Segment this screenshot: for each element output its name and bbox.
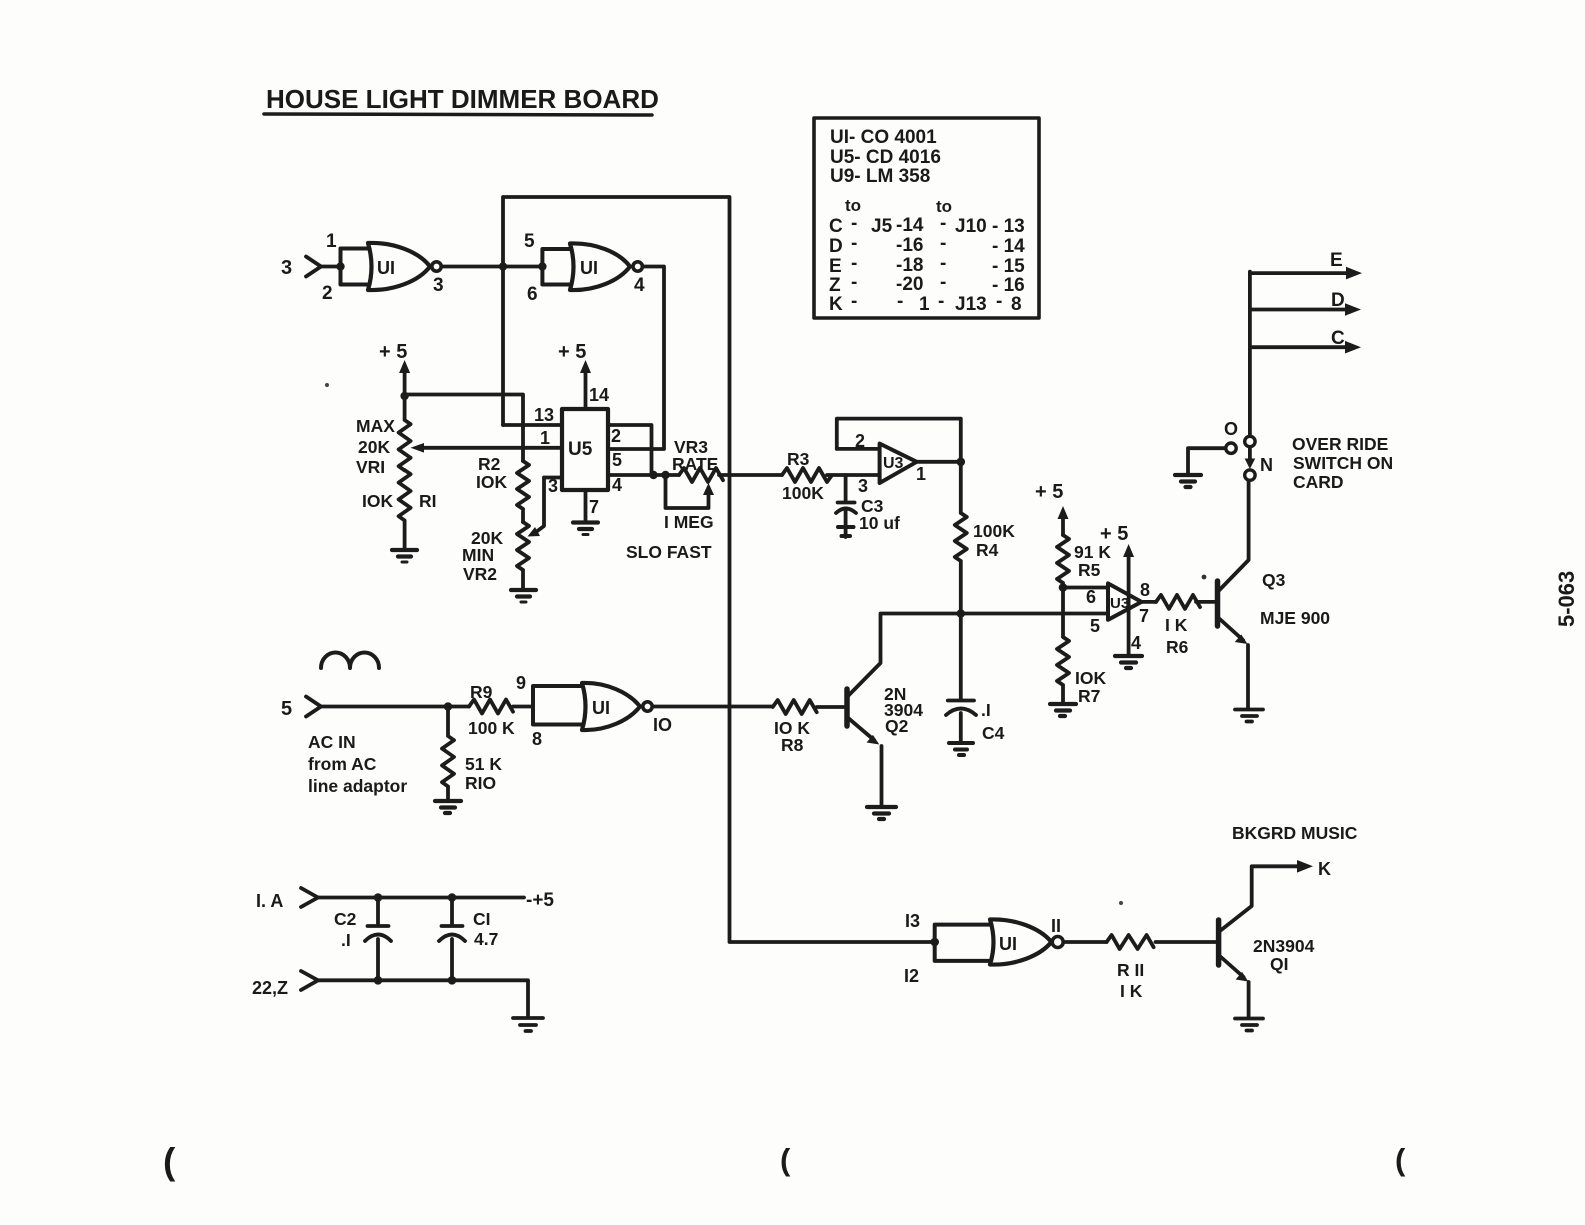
svg-text:5: 5 (1090, 616, 1100, 636)
svg-text:IO: IO (653, 715, 672, 735)
label R2 10K (476, 454, 507, 492)
potentiometer VR3 1MEG (679, 468, 782, 482)
svg-text:II: II (1051, 916, 1061, 936)
node gate U1a input junction (336, 262, 344, 270)
wire O contact to ground (1188, 448, 1226, 474)
switch contact O (left) (1226, 443, 1236, 453)
resistor R7 10K (1057, 588, 1069, 704)
capacitor C3 10uf (836, 475, 856, 537)
pin 12 label (U1d) (904, 966, 919, 986)
svg-text:6: 6 (527, 284, 538, 305)
svg-text:J5: J5 (871, 216, 893, 237)
ground (Q2) (867, 807, 896, 819)
nor gate U1c input box (533, 686, 582, 725)
transistor Q1 2N3904 (1216, 920, 1222, 965)
node C1 top (448, 893, 457, 902)
label OVER RIDE SWITCH ON CARD (1292, 434, 1393, 492)
pin 3 label U3 (858, 476, 868, 496)
node R4/C4/Q2 junction (957, 609, 966, 618)
power +5 (U3 pin 8) (1100, 523, 1128, 545)
svg-text:2: 2 (611, 426, 621, 446)
svg-text:Z: Z (829, 275, 841, 296)
svg-text:4: 4 (612, 475, 622, 495)
resistor R5 91K (1057, 535, 1069, 587)
svg-text:3: 3 (858, 476, 868, 496)
svg-text:6: 6 (1086, 587, 1096, 607)
ground (C4) (949, 743, 973, 755)
svg-text:QI: QI (1270, 954, 1288, 974)
svg-text:9: 9 (516, 673, 526, 693)
wire U3 pin 6 stub (1063, 586, 1108, 590)
label 20K MIN VR2 (462, 528, 503, 584)
wire +5 rail top (318, 896, 524, 900)
svg-text:Q3: Q3 (1262, 570, 1286, 590)
svg-text:5: 5 (524, 231, 535, 252)
label BKGRD MUSIC (1232, 823, 1358, 843)
wire U3 output (917, 460, 961, 464)
resistor R2 10K (517, 461, 529, 522)
svg-text:-+5: -+5 (526, 890, 554, 911)
ground (Q3) (1235, 710, 1263, 722)
nor gate U1c output bubble (643, 702, 652, 711)
label 1 MEG (664, 512, 714, 532)
svg-text:RI: RI (419, 491, 437, 511)
svg-text:R8: R8 (781, 735, 804, 755)
svg-text:+ 5: + 5 (1100, 523, 1128, 545)
svg-text:.I: .I (341, 930, 351, 950)
svg-text:-16: -16 (896, 235, 923, 256)
output C arrow (1250, 345, 1347, 349)
node C1 bottom (448, 976, 457, 985)
svg-text:4.7: 4.7 (474, 929, 498, 949)
svg-text:UI: UI (592, 698, 610, 718)
svg-text:from AC: from AC (308, 754, 377, 774)
svg-text:10 uf: 10 uf (859, 513, 900, 533)
svg-text:-14: -14 (896, 215, 924, 236)
svg-text:CARD: CARD (1293, 472, 1344, 492)
svg-text:I2: I2 (904, 966, 919, 986)
resistor R11 1K (1107, 935, 1216, 949)
svg-text:3: 3 (433, 275, 444, 296)
op-amp U3 second half (1108, 583, 1142, 619)
svg-text:-: - (851, 291, 857, 312)
label MAX 20K VR1 (356, 416, 437, 511)
svg-text:2N3904: 2N3904 (1253, 936, 1315, 956)
input 22,Z arrow (252, 978, 288, 998)
svg-text:+ 5: + 5 (1035, 481, 1063, 503)
wire feedback loop top (503, 197, 935, 942)
potentiometer VR1 20K (399, 396, 411, 470)
label VR3 RATE (672, 437, 718, 474)
svg-text:R4: R4 (976, 540, 999, 560)
svg-text:SWITCH ON: SWITCH ON (1293, 453, 1393, 473)
node C2 top (374, 893, 383, 902)
pin 5 label U3b (1090, 616, 1100, 636)
wire 1MEG bottom loop (666, 475, 709, 508)
pin 13 label (U1d) (905, 911, 920, 931)
svg-text:-: - (897, 291, 903, 312)
svg-text:100K: 100K (782, 483, 824, 503)
svg-text:U3: U3 (1110, 595, 1129, 612)
capacitor C2 .1 (365, 898, 391, 981)
power +5 (VR1) (379, 341, 407, 363)
pin 9 label (516, 673, 526, 693)
svg-text:R6: R6 (1166, 637, 1189, 657)
VR3 wiper arrow (703, 483, 714, 495)
nor gate U1b input box (542, 249, 570, 285)
svg-text:VRI: VRI (356, 457, 385, 477)
ground (bottom rail) (513, 1018, 543, 1031)
svg-text:2: 2 (322, 283, 333, 304)
svg-text:D: D (829, 236, 843, 257)
svg-text:1: 1 (919, 294, 930, 315)
svg-text:C: C (829, 216, 843, 237)
nor gate U1d output bubble (1052, 937, 1063, 948)
svg-text:O: O (1224, 419, 1238, 439)
transistor Q2 2N3904 (844, 689, 850, 726)
node pin4/pin2 junction (649, 471, 657, 479)
wire U1d output to R11 (1064, 940, 1107, 944)
switch contact top (1245, 436, 1255, 446)
svg-text:E: E (829, 256, 842, 277)
speck (325, 383, 329, 387)
svg-text:I K: I K (1165, 615, 1188, 635)
svg-text:UI: UI (377, 258, 395, 278)
ground (C3) (838, 527, 854, 536)
title underline (264, 114, 652, 115)
label SLO FAST (626, 542, 712, 562)
svg-text:IOK: IOK (1075, 668, 1106, 688)
svg-text:(: ( (1395, 1142, 1406, 1177)
svg-text:91 K: 91 K (1074, 542, 1111, 562)
VR2 wiper arrow from U5 pin 3 (536, 478, 544, 533)
svg-text:5: 5 (281, 698, 292, 720)
wire U3b output to R6 (1142, 600, 1157, 604)
svg-text:SLO FAST: SLO FAST (626, 542, 712, 562)
wire U5 pin 4 (608, 473, 679, 477)
svg-text:-: - (851, 253, 857, 274)
svg-text:-: - (851, 233, 857, 254)
input 1,A arrow (256, 891, 283, 911)
svg-text:K: K (829, 294, 843, 315)
op-amp U3 first half (880, 444, 917, 483)
svg-text:-: - (940, 233, 946, 254)
page fold mark center (780, 1142, 791, 1177)
svg-text:R3: R3 (787, 449, 810, 469)
svg-text:- 15: - 15 (992, 256, 1025, 277)
svg-text:100K: 100K (973, 521, 1015, 541)
pin 1 label U5 (540, 428, 550, 448)
input pin 3 arrow (306, 257, 321, 277)
ground (R7) (1050, 704, 1076, 716)
wire U3 pin 2 stub (837, 447, 880, 451)
pin 3 output label (433, 275, 444, 296)
power +5 (U5 pin 14) (558, 341, 586, 363)
svg-text:R7: R7 (1078, 686, 1100, 706)
svg-text:-: - (940, 253, 946, 274)
svg-text:14: 14 (589, 385, 609, 405)
svg-text:MJE 900: MJE 900 (1260, 608, 1330, 628)
nor gate U1a output bubble (432, 262, 441, 271)
resistor R4 100K (955, 462, 967, 614)
resistor R10 51K (442, 707, 454, 801)
node C2 bottom (374, 976, 383, 985)
svg-text:IOK: IOK (476, 472, 507, 492)
resistor R8 10K (773, 700, 844, 714)
title HOUSE LIGHT DIMMER BOARD (266, 84, 659, 114)
svg-text:100 K: 100 K (468, 718, 515, 738)
svg-text:J10: J10 (955, 216, 987, 237)
svg-text:13: 13 (534, 405, 554, 425)
svg-text:1: 1 (326, 231, 337, 252)
svg-text:E: E (1330, 250, 1343, 271)
svg-text:20K: 20K (358, 437, 390, 457)
svg-text:-: - (851, 213, 857, 234)
svg-text:-: - (938, 291, 944, 312)
input pin 5 arrow (AC IN) (281, 698, 292, 720)
node feedback tap (499, 262, 507, 270)
svg-text:N: N (1260, 455, 1273, 475)
svg-text:5: 5 (612, 450, 622, 470)
VR1 wiper arrow to U5 pin 1 (411, 443, 425, 453)
svg-text:22,Z: 22,Z (252, 978, 288, 998)
node U1d input junction (930, 938, 939, 947)
svg-text:I3: I3 (905, 911, 920, 931)
wire Q2 collector to U3 pin 5 row (961, 612, 1108, 616)
output E arrow (1250, 271, 1348, 275)
node gate U1b input junction (538, 262, 546, 270)
svg-text:Q2: Q2 (885, 716, 909, 736)
pin 5 label (524, 231, 535, 252)
pin 6 label (527, 284, 538, 305)
ground (U3 pin 4) (1115, 656, 1142, 668)
resistor R6 1K (1156, 595, 1215, 609)
svg-text:AC IN: AC IN (308, 732, 356, 752)
svg-text:+ 5: + 5 (379, 341, 407, 363)
power +5 (R5) (1035, 481, 1063, 503)
svg-text:+ 5: + 5 (558, 341, 586, 363)
pin 3 label U5 (548, 476, 558, 496)
page fold mark left (163, 1141, 176, 1182)
svg-text:R2: R2 (478, 454, 501, 474)
wire AC in to R9 (321, 705, 469, 709)
svg-text:8: 8 (1140, 580, 1150, 600)
svg-text:I K: I K (1120, 981, 1143, 1001)
node R5/R7/pin6 junction (1059, 583, 1068, 592)
svg-text:2: 2 (855, 431, 865, 451)
svg-text:U5: U5 (568, 439, 593, 460)
wire +5 to R2 branch (405, 395, 523, 462)
svg-text:C2: C2 (334, 909, 357, 929)
label AC IN from AC line adaptor (308, 732, 407, 796)
pin 4 output label (634, 275, 645, 296)
potentiometer VR2 20K (517, 522, 529, 589)
svg-text:RATE: RATE (672, 454, 718, 474)
wire gate U1a output to gate U1b (442, 265, 543, 269)
wire U5 pin 7 to ground (584, 490, 588, 521)
svg-text:I. A: I. A (256, 891, 283, 911)
svg-text:-: - (940, 272, 946, 293)
node R10 tap (444, 702, 453, 711)
svg-text:R9: R9 (470, 682, 493, 702)
svg-text:line adaptor: line adaptor (308, 776, 407, 796)
svg-text:J13: J13 (955, 294, 987, 315)
node VR1 top junction (400, 392, 408, 400)
svg-text:-: - (996, 291, 1002, 312)
pin 8 label (532, 729, 542, 749)
svg-text:I MEG: I MEG (664, 512, 714, 532)
svg-text:-18: -18 (896, 255, 923, 276)
wire U3 pin 8/4 power stem (1127, 555, 1131, 655)
svg-text:4: 4 (1131, 633, 1141, 653)
nor gate U1a input box (341, 249, 369, 285)
svg-text:51 K: 51 K (465, 754, 502, 774)
capacitor C1 4.7 (439, 898, 465, 981)
svg-text:- 13: - 13 (992, 216, 1025, 237)
svg-text:(: ( (780, 1142, 791, 1177)
svg-text:UI: UI (999, 934, 1017, 954)
svg-text:-: - (940, 213, 946, 234)
svg-text:MAX: MAX (356, 416, 395, 436)
nor gate U1d body (990, 919, 1051, 964)
pin 2 label (322, 283, 333, 304)
IC U5 (562, 409, 608, 490)
resistor R3 100K (782, 468, 880, 482)
svg-text:VR2: VR2 (463, 564, 497, 584)
svg-text:1: 1 (540, 428, 550, 448)
svg-text:MIN: MIN (462, 545, 494, 565)
wire gate U1c output to R8 (653, 705, 773, 709)
wire gate U1b output down to U5 pin 5 (608, 267, 664, 450)
ground (VR2) (511, 590, 536, 597)
svg-text:7: 7 (1139, 606, 1149, 626)
svg-text:UI- CO 4001: UI- CO 4001 (830, 127, 937, 148)
nor gate U1b body (570, 243, 630, 290)
ground (U5 pin 7) (573, 523, 598, 530)
svg-text:8: 8 (1011, 294, 1022, 315)
svg-text:C4: C4 (982, 723, 1005, 743)
resistor R1 10K (399, 470, 411, 549)
label 5-063 (rotated page number) (1554, 571, 1579, 627)
svg-text:R II: R II (1117, 960, 1144, 980)
svg-text:- 14: - 14 (992, 236, 1025, 257)
svg-text:D: D (1331, 290, 1345, 311)
svg-text:R5: R5 (1078, 560, 1101, 580)
svg-text:UI: UI (580, 258, 598, 278)
output D arrow (1250, 308, 1347, 312)
svg-text:5-063: 5-063 (1554, 571, 1579, 627)
nor gate U1b output bubble (633, 262, 642, 271)
svg-text:4: 4 (634, 275, 645, 296)
svg-text:8: 8 (532, 729, 542, 749)
page fold mark right (1395, 1142, 1406, 1177)
nor gate U1c body (582, 683, 640, 730)
transistor Q3 MJE900 (1215, 581, 1221, 626)
resistor R9 100K (469, 700, 533, 714)
node pin4/1MEG junction (661, 471, 669, 479)
svg-text:RIO: RIO (465, 773, 496, 793)
AC pickup humps (321, 652, 379, 668)
svg-text:(: ( (163, 1141, 176, 1182)
wire switch to output bus (1248, 272, 1252, 436)
wire input to gate U1a (321, 265, 341, 269)
svg-text:7: 7 (589, 497, 599, 517)
svg-text:HOUSE LIGHT DIMMER BOARD: HOUSE LIGHT DIMMER BOARD (266, 84, 659, 114)
node U3 output junction (957, 458, 966, 467)
svg-text:C: C (1331, 328, 1345, 349)
capacitor C4 .1 (946, 614, 976, 742)
ground (override switch) (1175, 475, 1201, 487)
svg-text:IOK: IOK (362, 491, 393, 511)
svg-text:U3: U3 (883, 455, 904, 472)
ground (VR1/R1) (392, 550, 417, 557)
svg-text:U9- LM 358: U9- LM 358 (830, 166, 930, 187)
pin 5 label U5 (612, 450, 622, 470)
svg-text:OVER RIDE: OVER RIDE (1292, 434, 1388, 454)
svg-text:BKGRD MUSIC: BKGRD MUSIC (1232, 823, 1358, 843)
svg-text:K: K (1318, 859, 1331, 879)
wire U5 pin 13 (503, 423, 562, 427)
legend text U1 U5 U9 (829, 127, 1025, 315)
wire U5 pin 3 stub (544, 476, 562, 480)
switch contact N (bottom) (1245, 470, 1255, 480)
legend box (814, 118, 1039, 318)
svg-text:3: 3 (281, 257, 292, 279)
svg-text:U5- CD 4016: U5- CD 4016 (830, 147, 941, 168)
wire U5 pin 2 loop (608, 425, 652, 475)
nor gate U1a body (368, 243, 430, 290)
wire U3 feedback loop (837, 419, 961, 462)
svg-text:.I: .I (981, 700, 991, 720)
switch wiper arrow (1248, 447, 1252, 459)
nor gate U1d input box (935, 925, 990, 961)
ground (Q1) (1235, 1019, 1263, 1031)
pin 1 label (326, 231, 337, 252)
svg-text:CI: CI (473, 909, 491, 929)
wire ground rail bottom (318, 980, 528, 1017)
ground (R10) (435, 801, 461, 813)
svg-text:1: 1 (916, 464, 926, 484)
svg-text:-: - (851, 272, 857, 293)
